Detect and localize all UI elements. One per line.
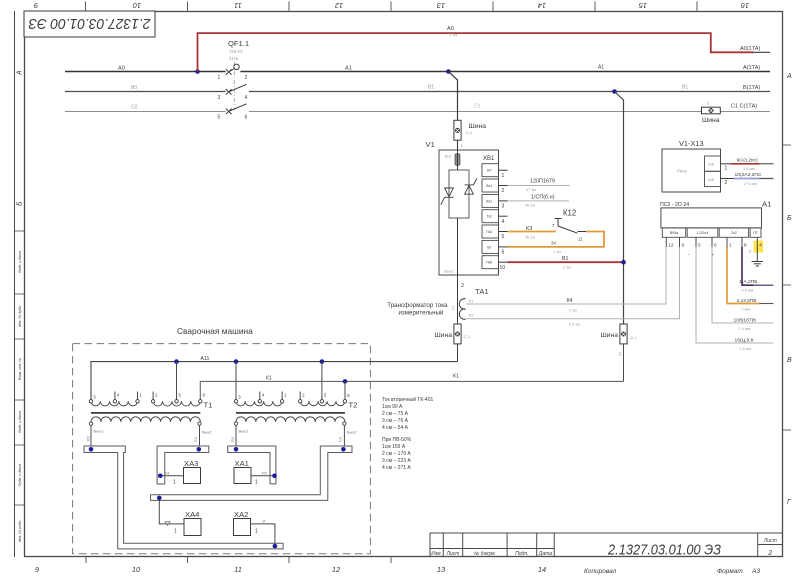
zone numbers bottom (35, 565, 546, 574)
svg-text:1: 1 (502, 173, 505, 179)
svg-text:С1 С(1ТА): С1 С(1ТА) (731, 104, 757, 110)
svg-text:1,5 мм: 1,5 мм (740, 347, 752, 351)
wire T2 sec left down (235, 425, 237, 447)
svg-text:12: 12 (668, 243, 674, 248)
svg-text:16: 16 (740, 1, 749, 10)
svg-text:ХВ1: ХВ1 (483, 156, 495, 162)
wire V1 to TA1 (457, 275, 459, 324)
svg-text:15: 15 (638, 1, 647, 10)
yellow highlight pin 4 (754, 241, 764, 253)
node ХА2 to bottom bus (273, 544, 278, 549)
svg-text:4: 4 (759, 243, 762, 248)
svg-text:Инв. № дубл.: Инв. № дубл. (18, 305, 22, 327)
wire А1 pin6 (712, 247, 774, 323)
svg-text:Вх: Вх (487, 245, 491, 249)
svg-text:4,1У,2ПБ: 4,1У,2ПБ (737, 298, 757, 304)
wire X13 pin2 (721, 178, 735, 180)
ground (752, 247, 763, 266)
svg-text:Реле: Реле (677, 169, 688, 174)
svg-text:Шина: Шина (702, 117, 720, 124)
svg-text:Б: Б (787, 215, 792, 222)
svg-text:В1: В1 (428, 85, 434, 91)
zone ticks bottom (86, 557, 391, 563)
svg-text:2 см – 75 А: 2 см – 75 А (382, 411, 409, 417)
А1 pin numbers (668, 243, 762, 248)
svg-text:3 см – 223 А: 3 см – 223 А (382, 458, 411, 464)
svg-text:45 1м: 45 1м (525, 236, 535, 240)
svg-text:К12: К12 (563, 209, 576, 218)
svg-text:Подп. и дата: Подп. и дата (18, 464, 22, 487)
svg-text:2: 2 (767, 550, 772, 557)
wire К1 (200, 381, 623, 399)
svg-text:QF1.1: QF1.1 (228, 39, 249, 48)
svg-text:К4: К4 (567, 298, 573, 304)
svg-text:1,5 мм: 1,5 мм (743, 167, 755, 171)
svg-text:13: 13 (436, 1, 445, 10)
svg-text:ХА2: ХА2 (234, 510, 248, 519)
svg-text:Б: Б (17, 201, 24, 206)
bus transfer device Шина (phase A) (454, 120, 486, 140)
svg-text:А1: А1 (598, 65, 604, 71)
svg-text:С0: С0 (131, 105, 138, 111)
left margin column cells (15, 231, 25, 505)
wire phase A right (240, 71, 770, 73)
svg-text:1мВ: 1мВ (708, 163, 715, 167)
svg-text:3 1м: 3 1м (449, 32, 458, 37)
busbar T2-right to middle bar (151, 446, 353, 500)
wire pin5-K12-pin6 loop (orange) (508, 231, 557, 233)
svg-text:Дата: Дата (538, 551, 552, 557)
А1 pin stubs (666, 237, 757, 247)
svg-text:12: 12 (334, 1, 343, 10)
wire phase C left (65, 111, 226, 113)
svg-text:Вн1: Вн1 (445, 155, 452, 159)
svg-text:ПС2 - 2О 24: ПС2 - 2О 24 (660, 202, 689, 208)
svg-text:2 1м: 2 1м (563, 266, 571, 270)
svg-text:R1: R1 (86, 435, 91, 441)
svg-text:2.1327.03.01.00 ЭЗ: 2.1327.03.01.00 ЭЗ (28, 15, 151, 31)
svg-text:Пх2: Пх2 (486, 230, 492, 234)
node T1 sec right on bus (197, 447, 202, 452)
svg-text:И: И (263, 519, 266, 524)
wire TA1 secondary 2 (466, 247, 680, 319)
svg-text:Подп. и дата: Подп. и дата (18, 411, 22, 434)
svg-text:9(А3,2пс): 9(А3,2пс) (737, 158, 759, 164)
svg-text:2+1 мм: 2+1 мм (744, 182, 757, 186)
svg-text:(2-1: (2-1 (630, 336, 637, 340)
svg-text:Тх2: Тх2 (486, 215, 492, 219)
svg-text:Инв. № подл.: Инв. № подл. (18, 520, 22, 542)
svg-text:Подп.: Подп. (515, 551, 528, 557)
QF1.1 pole 3 (226, 104, 247, 114)
svg-text:С1: С1 (452, 305, 456, 310)
svg-text:6: 6 (714, 243, 717, 248)
svg-text:V1-X13: V1-X13 (679, 139, 704, 148)
svg-text:2: 2 (725, 180, 728, 186)
svg-text:Т1: Т1 (204, 401, 213, 410)
wire B down (615, 92, 624, 325)
busbar T2-left (228, 446, 276, 484)
node mid-bus to ХА4 (157, 496, 162, 501)
thyristor VS right (up) (465, 178, 477, 194)
svg-text:А1: А1 (762, 200, 771, 209)
svg-text:С1: С1 (474, 104, 481, 110)
wire Шина to А11 (457, 344, 459, 362)
svg-text:Подп. и дата: Подп. и дата (18, 251, 22, 274)
svg-text:R2: R2 (262, 471, 268, 476)
svg-text:Вых2: Вых2 (347, 430, 358, 435)
svg-text:В1: В1 (562, 256, 568, 262)
zone numbers top (rotated) (33, 1, 749, 10)
svg-text:10б(1б7)К: 10б(1б7)К (734, 318, 757, 324)
wire А11 (91, 362, 458, 400)
fuse inside V1 (455, 154, 460, 166)
svg-text:В(1ТА): В(1ТА) (743, 85, 760, 91)
node A0 junction (195, 69, 200, 74)
svg-text:4: 4 (502, 219, 505, 225)
svg-text:Вых1: Вых1 (239, 429, 250, 434)
svg-text:2 см – 179 А: 2 см – 179 А (382, 451, 411, 457)
svg-text:измерительный: измерительный (398, 310, 444, 317)
wire through fuse (457, 150, 459, 170)
wire phase B left (65, 91, 226, 93)
svg-text:Лист: Лист (446, 551, 460, 557)
svg-text:Копировал: Копировал (584, 568, 617, 575)
svg-text:5: 5 (218, 115, 221, 121)
wire pin2 (508, 185, 571, 187)
svg-text:725-УЗ: 725-УЗ (229, 49, 243, 54)
svg-text:1: 1 (725, 166, 728, 172)
svg-text:12: 12 (332, 565, 341, 574)
svg-text:Пхб: Пхб (486, 261, 492, 265)
node T2 sec right on bus (341, 447, 346, 452)
wire А1 pin5 (696, 247, 774, 343)
svg-text:Шина: Шина (434, 332, 452, 339)
svg-text:1,2Оч4: 1,2Оч4 (697, 231, 709, 235)
svg-text:31Га: 31Га (229, 56, 239, 61)
svg-text:47 1м: 47 1м (526, 188, 536, 192)
svg-text:1: 1 (174, 529, 177, 535)
svg-text:16(Ц,9,К: 16(Ц,9,К (735, 338, 754, 344)
svg-text:5: 5 (698, 243, 701, 248)
svg-text:И1: И1 (469, 300, 474, 304)
svg-text:2: 2 (502, 188, 505, 194)
svg-text:11: 11 (234, 565, 242, 574)
svg-text:АЛ: АЛ (487, 169, 492, 173)
svg-text:5: 5 (502, 234, 505, 240)
svg-text:ВУ5а: ВУ5а (670, 231, 679, 235)
wire to V1 pin (457, 140, 459, 150)
svg-text:14: 14 (538, 1, 546, 10)
svg-text:4 см – 271 А: 4 см – 271 А (382, 465, 411, 471)
svg-text:11: 11 (578, 237, 583, 242)
QF1.1 pole 1 (226, 64, 239, 75)
bus transfer device Шина (phase C line) (702, 101, 721, 125)
wire B down to К1 (623, 344, 625, 382)
node А11-T2.3 (234, 359, 239, 364)
svg-text:Сварочная машина: Сварочная машина (177, 326, 253, 336)
wire X13 pin1 (721, 163, 731, 165)
svg-text:14: 14 (538, 565, 546, 574)
busbar T1-left to bottom bar (84, 446, 283, 549)
QF1.1 pole 2 (226, 84, 247, 94)
zone ticks top (86, 2, 698, 12)
svg-text:Вх1: Вх1 (486, 184, 492, 188)
wire А1 pin1 (orange) (727, 247, 760, 304)
svg-text:1: 1 (218, 75, 221, 81)
svg-text:6: 6 (245, 115, 248, 121)
svg-text:34: 34 (551, 241, 556, 246)
svg-text:2.1327.03.01.00 ЭЗ: 2.1327.03.01.00 ЭЗ (607, 543, 721, 559)
svg-text:А3: А3 (751, 568, 760, 575)
node К1-T2.6 (343, 379, 348, 384)
svg-text:А0(1ТА): А0(1ТА) (740, 46, 760, 52)
wire А1 pin8 (purple) (742, 247, 753, 285)
svg-text:8: 8 (744, 243, 747, 248)
svg-text:Шина: Шина (600, 332, 618, 339)
svg-text:А1: А1 (345, 66, 352, 72)
wire T1 sec left down (90, 425, 92, 447)
svg-text:24: 24 (619, 352, 623, 356)
svg-text:(Г-1: (Г-1 (464, 335, 471, 339)
svg-text:2: 2 (461, 283, 464, 289)
wire T1.5 up (176, 362, 178, 400)
svg-text:120П1679: 120П1679 (530, 179, 555, 185)
svg-text:1: 1 (255, 529, 258, 535)
svg-text:40 1м: 40 1м (525, 204, 535, 208)
svg-text:Шина: Шина (469, 123, 487, 130)
svg-text:А: А (786, 73, 792, 80)
svg-text:Формат: Формат (717, 568, 743, 575)
svg-text:№ докум.: № докум. (474, 551, 496, 557)
svg-text:В1: В1 (682, 85, 688, 91)
svg-text:1: 1 (173, 480, 176, 486)
svg-text:R2: R2 (230, 436, 235, 442)
svg-text:1 1м: 1 1м (553, 250, 561, 254)
svg-text:Ток вторичный ТК-401: Ток вторичный ТК-401 (382, 396, 433, 403)
thyristor pair box (449, 170, 469, 218)
svg-text:1/СП(б.н): 1/СП(б.н) (531, 195, 555, 201)
wire T2.6 up (344, 381, 346, 399)
zone letters right edge (786, 73, 792, 506)
bus transfer device Шина (left) (434, 324, 470, 344)
svg-text:6: 6 (502, 249, 505, 255)
svg-text:ХА1: ХА1 (235, 459, 249, 468)
wire V1 output down (457, 218, 459, 275)
svg-text:1,5 мм: 1,5 мм (739, 327, 751, 331)
svg-text:Вых1: Вых1 (445, 270, 454, 274)
node А11-T2.5 (320, 359, 325, 364)
wire phase A left (65, 71, 226, 73)
wire T2.5 up (321, 362, 323, 400)
svg-text:ПГ: ПГ (753, 231, 758, 235)
wire T2.3 up (235, 362, 237, 400)
wire phase C right (249, 111, 770, 113)
svg-text:К1: К1 (266, 375, 272, 381)
svg-text:А11: А11 (201, 356, 210, 362)
node T2 sec left on bus (234, 447, 239, 452)
svg-text:Взам. инв. №: Взам. инв. № (18, 358, 22, 380)
pin stubs (499, 170, 508, 262)
wire А0 tail (754, 51, 770, 53)
svg-text:13: 13 (437, 565, 446, 574)
svg-text:4: 4 (245, 95, 248, 101)
svg-text:10: 10 (500, 265, 506, 271)
node B branch (612, 89, 617, 94)
svg-text:9: 9 (682, 243, 685, 248)
svg-text:Вх2: Вх2 (486, 199, 492, 203)
svg-text:10: 10 (132, 565, 141, 574)
svg-text:Т2: Т2 (349, 401, 358, 410)
svg-text:Лист: Лист (763, 538, 777, 544)
wire pin10 (red) (508, 261, 624, 263)
svg-text:При ПВ-50%: При ПВ-50% (382, 437, 412, 443)
svg-text:К1: К1 (453, 374, 459, 380)
svg-text:4 см – 54 А: 4 см – 54 А (382, 425, 409, 431)
svg-text:КЗ: КЗ (526, 226, 532, 232)
svg-text:1: 1 (729, 243, 732, 248)
zone ticks right edge (783, 145, 791, 430)
wire ХА4 feed (159, 500, 184, 524)
svg-text:ТА1: ТА1 (475, 287, 489, 296)
svg-text:Изм.: Изм. (431, 551, 442, 557)
svg-text:1(А,2ПБ: 1(А,2ПБ (739, 279, 757, 285)
svg-text:А: А (17, 70, 24, 76)
svg-text:О-1: О-1 (466, 130, 473, 135)
svg-text:2ч2: 2ч2 (731, 231, 737, 235)
svg-text:0,5 мм: 0,5 мм (742, 289, 754, 293)
svg-text:8.: 8. (749, 250, 752, 254)
winding currents note (382, 396, 433, 471)
svg-text:0,5 1м: 0,5 1м (569, 323, 580, 327)
svg-text:10(2А3,2ПС: 10(2А3,2ПС (735, 172, 762, 178)
svg-text:1см 159 А: 1см 159 А (382, 444, 406, 450)
node red-B junction (621, 260, 626, 265)
svg-text:2: 2 (245, 75, 248, 81)
svg-text:1см 90 А: 1см 90 А (382, 404, 403, 410)
node T1 sec left on bus (89, 447, 94, 452)
busbar T1-right (to ХА3) (157, 446, 209, 484)
circuit breaker QF1.1 (228, 39, 249, 110)
svg-text:С3: С3 (338, 436, 343, 442)
svg-text:3 см – 76 А: 3 см – 76 А (382, 418, 409, 424)
svg-text:В0: В0 (131, 85, 137, 91)
svg-text:В: В (787, 357, 792, 364)
thyristor VS left (down) (441, 188, 454, 205)
wire T1 sec right down (199, 425, 201, 447)
top-left designation stamp (rotated 180) (24, 11, 155, 37)
wire pin3 (508, 200, 570, 202)
svg-text:V1: V1 (426, 140, 435, 149)
svg-text:ХА4: ХА4 (185, 510, 199, 519)
svg-text:10: 10 (132, 1, 141, 10)
svg-text:Вых2: Вых2 (202, 430, 213, 435)
wire T2 sec right down (343, 425, 345, 447)
svg-text:S1: S1 (165, 471, 171, 476)
svg-text:1мВ: 1мВ (708, 178, 715, 182)
svg-text:С1: С1 (193, 436, 198, 442)
wire TA1 secondary 1 (466, 247, 666, 304)
svg-text:2 1м: 2 1м (569, 309, 577, 313)
wire A down to bus device (448, 72, 457, 121)
zone letters left edge (17, 70, 24, 206)
pin numbers (500, 173, 506, 271)
wire phase B right (249, 91, 770, 93)
svg-text:3: 3 (502, 203, 505, 209)
svg-text:1: 1 (255, 480, 258, 486)
svg-text:Вых1: Вых1 (94, 429, 105, 434)
bus transfer device Шина (right, phase B) (600, 324, 636, 356)
bottom title block (430, 533, 783, 557)
svg-text:11: 11 (234, 1, 242, 10)
svg-text:А0: А0 (118, 66, 125, 72)
svg-text:ХА3: ХА3 (184, 459, 198, 468)
svg-text:2 мм: 2 мм (742, 308, 751, 312)
node А11-T1.5 (174, 359, 179, 364)
node A branch to V1 (446, 69, 451, 74)
wire А0 red branch (198, 33, 754, 71)
svg-text:3: 3 (218, 95, 221, 101)
svg-text:Трансформатор тока: Трансформатор тока (387, 302, 448, 309)
svg-text:А(1ТА): А(1ТА) (743, 65, 760, 71)
svg-text:И2: И2 (469, 314, 474, 318)
